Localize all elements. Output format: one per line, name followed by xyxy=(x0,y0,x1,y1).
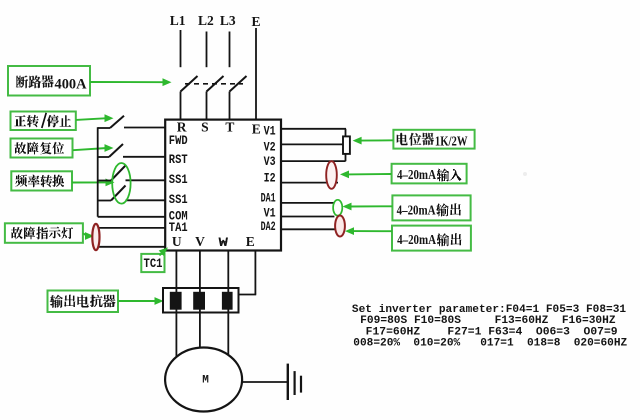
label box: breaker 400A (duanluqi 400A) xyxy=(8,66,90,96)
green arrow: frequency switch to SS1 switches xyxy=(72,181,108,183)
potentiometer R1 1K/2W body xyxy=(343,136,350,154)
wire breaker pole1 to R xyxy=(180,92,182,120)
wire FWD stub xyxy=(98,127,110,129)
wire DA2 xyxy=(281,228,336,230)
svg-text:4–20mA: 4–20mA xyxy=(397,168,437,183)
svg-text:V3: V3 xyxy=(264,154,276,169)
green arrow: 4-20mA output 1 label xyxy=(349,205,392,207)
reactor winding V xyxy=(194,292,205,309)
svg-text:TC1: TC1 xyxy=(144,257,163,271)
wire breaker pole2 to S xyxy=(206,92,208,120)
wire E down to inverter xyxy=(255,28,257,120)
wire SS1b to inverter xyxy=(126,199,167,201)
svg-text:V: V xyxy=(195,234,205,249)
reactor winding W xyxy=(222,292,232,309)
svg-text:S: S xyxy=(201,120,209,135)
label box: 4-20mA input (shuru) xyxy=(392,164,467,184)
wire V1 to potentiometer xyxy=(281,128,346,130)
svg-text:V1: V1 xyxy=(264,123,276,138)
inverter U1 outline xyxy=(165,120,281,251)
label box: 4-20mA output 2 (shuchu) xyxy=(392,226,471,251)
green arrow: fault lamp label to lamp xyxy=(83,233,88,236)
label box: fault reset (guzhang fuwei) xyxy=(11,139,73,158)
breaker QF pole3 blade xyxy=(230,76,247,92)
wire SS1b stub xyxy=(98,200,111,202)
svg-text:L3: L3 xyxy=(220,13,236,28)
ground bar 3 xyxy=(300,376,302,393)
label box: frequency switch (pinlv zhuanhuan) xyxy=(11,171,72,190)
wire V2 (wiper) xyxy=(281,143,343,145)
switch RST blade xyxy=(109,144,123,157)
svg-text:4–20mA: 4–20mA xyxy=(397,204,437,219)
svg-text:E: E xyxy=(252,121,261,136)
svg-text:DA2: DA2 xyxy=(261,219,276,234)
wire SS1a stub xyxy=(98,180,111,182)
wire motor to ground xyxy=(242,381,288,383)
green arrow: output reactor label to reactor xyxy=(118,300,157,302)
svg-text:FWD: FWD xyxy=(169,133,188,148)
wire W phase xyxy=(227,251,229,361)
svg-text:E: E xyxy=(246,234,255,249)
breaker QF mechanical link xyxy=(185,83,243,85)
label box: output reactor (shuchu diankangqi) xyxy=(48,291,119,313)
wire RST to inverter xyxy=(123,156,166,158)
wire L3 to breaker xyxy=(229,32,231,68)
svg-text:DA1: DA1 xyxy=(261,190,276,205)
breaker QF pole1 blade xyxy=(181,76,198,92)
wire E to reactor xyxy=(254,251,256,295)
svg-text:RST: RST xyxy=(169,152,188,167)
svg-text:V2: V2 xyxy=(264,140,276,155)
svg-text:SS1: SS1 xyxy=(169,192,188,207)
green arrow: fault reset to RST switch xyxy=(73,148,107,150)
wire DA1 xyxy=(281,202,334,204)
twisted-pair ellipse DA2 output xyxy=(335,216,345,237)
output reactor box xyxy=(163,288,239,313)
wire TA1 to lamp xyxy=(96,227,166,229)
wire potentiometer to V3 xyxy=(345,154,347,161)
wire V3 xyxy=(281,160,346,162)
svg-text:M: M xyxy=(202,375,209,387)
svg-text:4–20mA: 4–20mA xyxy=(397,233,437,248)
breaker QF pole2 blade xyxy=(207,76,224,92)
motor M body xyxy=(165,348,242,412)
switch SS1b blade xyxy=(111,186,126,201)
svg-text:T: T xyxy=(225,120,234,135)
svg-text:W: W xyxy=(219,235,229,250)
wire lamp return to TC1 xyxy=(96,246,166,248)
wire V1 analog xyxy=(281,216,334,218)
green arrow: forward/stop to FWD switch xyxy=(76,118,107,120)
green arrow: 4-20mA output 2 label xyxy=(352,230,393,232)
fault lamp ellipse xyxy=(92,224,99,250)
ground bar 1 xyxy=(287,364,289,400)
TC1 label box xyxy=(141,254,164,272)
faint smudge artifact xyxy=(523,172,527,176)
wire L2 to breaker xyxy=(206,32,208,68)
label box: potentiometer 1K/2W (dianweiqi) xyxy=(393,130,474,149)
wire RST stub xyxy=(98,156,109,158)
label box: 4-20mA output 1 (shuchu) xyxy=(392,195,470,220)
label box: fault indicator lamp (guzhang zhishideng) xyxy=(5,223,83,243)
switch SS1a blade xyxy=(111,166,126,181)
selector ellipse around SS1 switches xyxy=(112,163,130,204)
wire U phase xyxy=(175,251,177,363)
green arrow: TC1 label to U terminal xyxy=(160,252,164,256)
reactor winding U xyxy=(170,292,181,309)
twisted-pair ellipse DA1 output xyxy=(333,200,342,216)
wire breaker pole3 to T xyxy=(229,92,231,120)
switch FWD blade xyxy=(110,116,124,128)
svg-text:SS1: SS1 xyxy=(169,172,188,187)
common bus wire (COM) xyxy=(97,127,99,217)
svg-text:L2: L2 xyxy=(198,13,214,28)
green arrow: potentiometer label xyxy=(359,139,393,141)
svg-text:1K/2W: 1K/2W xyxy=(435,135,468,150)
svg-text:E: E xyxy=(251,14,260,29)
wire FWD to inverter xyxy=(124,127,166,129)
svg-text:400A: 400A xyxy=(55,77,88,93)
wire I2 xyxy=(281,182,338,184)
svg-text:U: U xyxy=(172,234,182,249)
wire V phase xyxy=(199,251,201,353)
ground bar 2 xyxy=(294,371,296,395)
svg-text:L1: L1 xyxy=(170,13,186,28)
twisted-pair ellipse 4-20mA input xyxy=(326,161,337,189)
svg-text:TA1: TA1 xyxy=(169,220,188,235)
green arrow: 4-20mA input label xyxy=(347,173,392,175)
label box: forward/stop (zhengzhuan/tingzhi) xyxy=(11,112,76,131)
wire SS1a to inverter xyxy=(126,179,167,181)
wire L1 to breaker xyxy=(180,30,182,67)
svg-text:I2: I2 xyxy=(264,170,276,185)
svg-text:008=20% 010=20% 017=1 018=: 008=20% 010=20% 017=1 018=8 020=60HZ xyxy=(353,337,627,349)
green arrow: breaker label to QF xyxy=(90,81,165,83)
wire COM to inverter xyxy=(98,216,166,218)
